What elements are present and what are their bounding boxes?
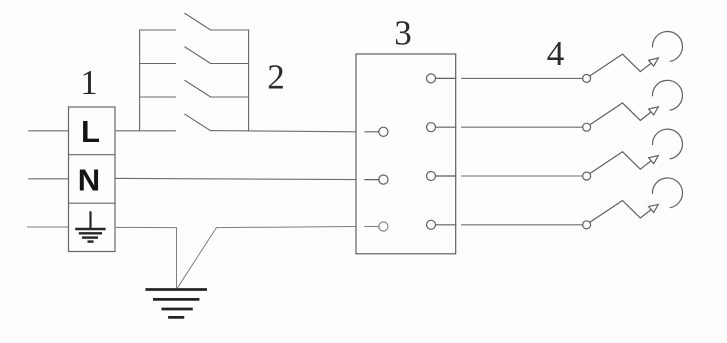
box 3 output terminal 3 <box>427 172 456 181</box>
box 3 output terminal 2 <box>427 123 456 132</box>
switch contact circuit 4 <box>583 201 623 229</box>
terminal block 1 outline <box>69 107 116 252</box>
wire circuit 4 <box>462 224 583 226</box>
load symbol circuit 3 <box>623 129 683 169</box>
box 3 output terminal 1 <box>427 74 456 83</box>
wire PE from earth tap to box 3 <box>216 227 356 228</box>
switch 2 pole 4 blade <box>185 114 211 131</box>
load symbol circuit 4 <box>623 178 683 218</box>
box 3 output terminal 4 <box>427 220 456 229</box>
PE earth symbol in terminal block <box>75 211 105 241</box>
switch 2 pole 1 <box>140 13 249 30</box>
load symbol circuit 2 <box>623 80 683 120</box>
box 3 input terminal L <box>365 127 388 136</box>
switch 2 right rail <box>248 30 250 131</box>
wire L from terminal block to switch <box>115 130 176 132</box>
svg-text:1: 1 <box>80 63 98 102</box>
svg-text:L: L <box>81 114 100 149</box>
terminal block 1 divider N/PE <box>69 202 116 204</box>
switch 2 left rail <box>139 30 141 131</box>
svg-text:4: 4 <box>547 34 565 73</box>
wire PE supply incoming <box>28 226 69 228</box>
wire circuit 1 <box>462 77 583 79</box>
wire PE from terminal block to earth tap <box>115 226 177 228</box>
PE tap diagonal up from earth <box>178 228 217 288</box>
wire N supply incoming <box>29 178 69 180</box>
switch contact circuit 3 <box>583 152 623 180</box>
svg-text:N: N <box>78 163 100 198</box>
box 3 input terminal N <box>365 175 388 184</box>
wire N from terminal block to box 3 <box>115 178 356 179</box>
switch 2 pole 2 <box>140 47 249 64</box>
svg-text:2: 2 <box>267 58 285 97</box>
wire circuit 2 <box>462 126 583 128</box>
wire circuit 3 <box>462 175 583 177</box>
switch 2 pole 3 <box>140 80 249 97</box>
load symbol circuit 1 <box>623 32 683 72</box>
box 3 input terminal PE <box>365 222 388 231</box>
earth ground symbol <box>145 290 207 318</box>
PE tap vertical down to earth <box>176 228 178 288</box>
distribution box 3 outline <box>356 54 456 254</box>
wire L from switch to box 3 <box>211 131 356 132</box>
terminal block 1 divider L/N <box>69 154 116 156</box>
svg-text:3: 3 <box>394 13 412 52</box>
switch contact circuit 1 <box>583 54 623 82</box>
wire L supply incoming <box>29 130 69 132</box>
switch contact circuit 2 <box>583 103 623 131</box>
